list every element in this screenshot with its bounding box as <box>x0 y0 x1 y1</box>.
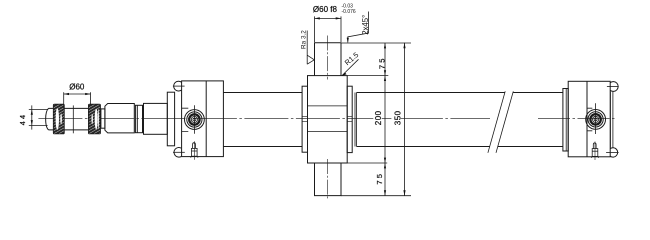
dim Ø60 extension lines <box>64 92 91 108</box>
dim Ø60 f8 extension lines <box>315 16 342 42</box>
dim Ø60 f8 line <box>315 17 342 19</box>
dim line 350 <box>404 43 406 196</box>
trunnion top pin <box>315 43 342 76</box>
svg-text:Ø60 f8: Ø60 f8 <box>313 5 338 14</box>
head rod bore lines <box>182 108 189 131</box>
trunnion right ring <box>347 86 352 152</box>
dim 44 arrows <box>31 110 33 115</box>
ball centre mark <box>72 105 74 133</box>
break line 2 <box>496 91 513 153</box>
text 350 <box>392 110 402 127</box>
rod bushing block <box>144 103 168 134</box>
dim 44 line <box>31 105 33 129</box>
text 200 <box>373 110 383 127</box>
svg-text:R1.5: R1.5 <box>343 50 361 67</box>
head vent plug <box>191 141 199 160</box>
cap end column <box>610 92 613 148</box>
head block <box>182 81 224 157</box>
cap rod bore lines <box>587 108 592 131</box>
cap port <box>586 103 606 134</box>
dim 44 extension lines <box>29 110 48 126</box>
cap ring <box>563 89 568 152</box>
cap block <box>568 81 610 157</box>
head tie-rod nut top <box>173 81 185 91</box>
svg-text:75: 75 <box>377 56 386 69</box>
collar ring <box>135 105 142 132</box>
arrows at y43 <box>384 43 386 48</box>
svg-text:44: 44 <box>18 113 27 125</box>
svg-text:2x45°: 2x45° <box>361 15 370 35</box>
tube weld seam <box>355 93 357 147</box>
tube section 2b <box>498 93 563 147</box>
cap vent plug <box>591 142 599 161</box>
trunnion block bore lines <box>308 106 348 131</box>
head tie-rod nut bottom <box>173 148 185 158</box>
svg-text:Ø60: Ø60 <box>69 83 85 92</box>
svg-text:-0.076: -0.076 <box>342 9 356 15</box>
tube section 1 <box>223 93 302 147</box>
bearing cup crescents right and end face <box>88 104 100 134</box>
top pin centerline <box>327 36 329 80</box>
fillet leader R15 <box>342 50 361 76</box>
trunnion bottom pin <box>315 163 342 196</box>
dim Ø60 arrows <box>64 93 69 95</box>
svg-text:75: 75 <box>375 172 384 185</box>
svg-text:200: 200 <box>374 110 383 125</box>
trunnion left ring <box>302 86 307 152</box>
dim Ø60 line <box>64 93 91 95</box>
break line 1 <box>488 91 505 153</box>
bearing cup crescents left <box>53 104 64 134</box>
cap tie-rod nut top <box>607 82 619 92</box>
extension line block bottom <box>345 162 387 164</box>
locknut <box>105 104 134 133</box>
arrows at y75.6 <box>384 70 386 75</box>
cap divider line <box>586 81 588 157</box>
extension line pin bottom <box>341 195 411 197</box>
extension line block top <box>347 75 388 77</box>
bottom pin centerline <box>327 159 329 199</box>
trunnion block <box>308 76 348 163</box>
main centerline <box>38 118 490 120</box>
arrow at y195.7 <box>384 190 386 195</box>
head divider line <box>205 81 207 157</box>
surface finish Ra 3.2 symbol <box>300 30 314 64</box>
cap tie-rod nut bottom <box>606 148 619 157</box>
chamfer leader 2x45 <box>347 12 370 43</box>
svg-text:Ra 3.2: Ra 3.2 <box>300 30 307 49</box>
tube section 2a <box>357 93 505 147</box>
dim Ø60 f8 arrows <box>315 17 320 19</box>
extension line pin top <box>341 42 411 44</box>
head flange plate <box>167 92 174 146</box>
dim line 75/200/75 <box>384 43 386 196</box>
svg-text:350: 350 <box>393 110 402 125</box>
neck <box>101 109 105 128</box>
head port <box>185 105 205 134</box>
arrows at y163 <box>384 158 386 163</box>
rod-eye barrel outline <box>46 108 99 129</box>
